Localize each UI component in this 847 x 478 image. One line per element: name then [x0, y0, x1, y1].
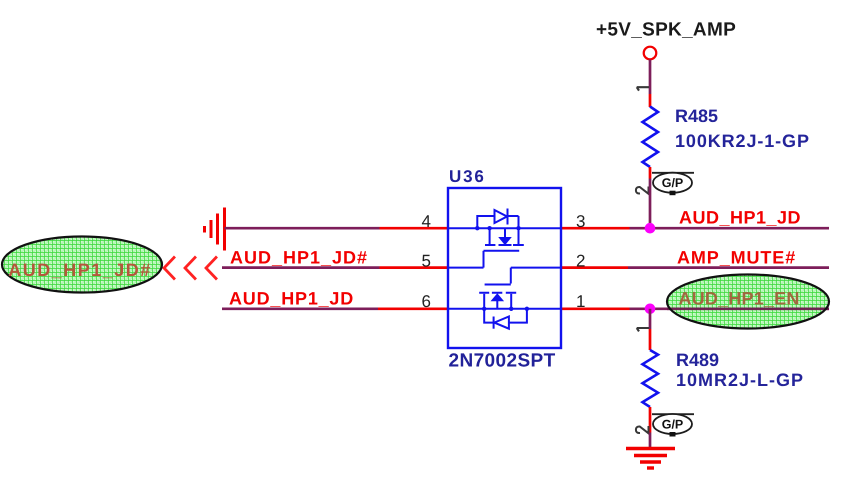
svg-text:10MR2J-L-GP: 10MR2J-L-GP — [676, 370, 804, 390]
IC U36 (dual MOSFET 2N7002SPT) body — [448, 167, 561, 372]
G/P symbol (upper) — [652, 173, 694, 196]
wire row3 left (purple, net AUD_HP1_JD) — [222, 307, 378, 310]
svg-text:1: 1 — [576, 292, 585, 311]
wire net +5V_SPK_AMP to R485 pin1 — [649, 60, 652, 95]
wire net AUD_HP1_EN (right, purple) — [630, 307, 830, 310]
svg-text:R489: R489 — [676, 350, 719, 370]
wire R485 pin 2 stub — [649, 167, 652, 179]
wire R485 to node AUD_HP1_JD — [649, 179, 652, 229]
node junction row1 — [645, 223, 656, 234]
resistor R485 — [643, 106, 810, 167]
highlight ellipse AUD_HP1_JD# (left) — [2, 237, 162, 293]
wire row2 left pin 5 stub (red) — [380, 266, 449, 269]
G/P symbol (lower) — [652, 414, 694, 437]
svg-text:AUD_HP1_JD#: AUD_HP1_JD# — [8, 260, 152, 280]
wire row1 left pin 4 stub (red) — [380, 227, 449, 230]
svg-text:U36: U36 — [449, 167, 486, 186]
off-page connector arrows — [164, 258, 216, 279]
svg-text:AMP_MUTE#: AMP_MUTE# — [677, 248, 796, 268]
svg-text:3: 3 — [576, 212, 585, 231]
pin number 1 (R489) — [637, 328, 649, 331]
wire pin5 internal — [448, 267, 484, 269]
wire R489 pin2 to ground — [649, 433, 652, 449]
wire row2 right pin 2 stub (red) — [561, 266, 628, 269]
pin number 1 (R485) — [637, 87, 649, 90]
transistor Q-B (lower FET of U36) — [448, 285, 561, 329]
svg-text:AUD_HP1_JD: AUD_HP1_JD — [229, 289, 354, 309]
node junction row3 — [645, 304, 656, 315]
svg-text:R485: R485 — [675, 106, 718, 126]
wire pin2 internal — [511, 268, 561, 284]
svg-text:5: 5 — [422, 252, 431, 271]
svg-text:2: 2 — [576, 252, 585, 271]
ground (bottom) — [626, 449, 675, 469]
transistor Q-A (upper FET of U36) — [448, 209, 561, 268]
resistor R489 — [643, 350, 805, 407]
ground (left, rotated) — [205, 208, 225, 251]
wire net AMP_MUTE# (right, purple) — [628, 266, 829, 269]
svg-text:2N7002SPT: 2N7002SPT — [449, 351, 556, 372]
wire node row3 to R489 (purple) — [649, 309, 652, 329]
wire row2 left (purple, net AUD_HP1_JD#) — [222, 266, 380, 269]
svg-text:AUD_HP1_JD: AUD_HP1_JD — [679, 208, 801, 228]
power symbol +5V_SPK_AMP — [596, 20, 736, 60]
wire row1 right pin 3 stub (red) — [561, 227, 630, 230]
pin number 2 (R485) — [636, 187, 649, 194]
svg-text:4: 4 — [422, 212, 431, 231]
wire net AUD_HP1_JD (right, purple) — [630, 227, 830, 230]
svg-text:G/P: G/P — [662, 176, 684, 190]
svg-text:+5V_SPK_AMP: +5V_SPK_AMP — [596, 20, 736, 41]
svg-text:G/P: G/P — [662, 418, 684, 432]
wire R489 pin 1 stub (red) — [649, 329, 652, 350]
pin number 2 (R489) — [636, 426, 649, 433]
wire R489 pin 2 stub — [649, 407, 652, 433]
svg-text:AUD_HP1_EN: AUD_HP1_EN — [679, 289, 800, 309]
wire row1 left (purple) — [225, 227, 380, 230]
svg-text:6: 6 — [422, 292, 431, 311]
wire row3 right pin 1 stub (red) — [561, 307, 630, 310]
wire row3 left pin 6 stub (red) — [378, 307, 448, 310]
highlight ellipse AUD_HP1_EN (right) — [667, 275, 829, 329]
svg-text:100KR2J-1-GP: 100KR2J-1-GP — [675, 131, 810, 151]
svg-text:AUD_HP1_JD#: AUD_HP1_JD# — [230, 248, 368, 268]
wire R485 pin 1 stub — [649, 94, 652, 107]
